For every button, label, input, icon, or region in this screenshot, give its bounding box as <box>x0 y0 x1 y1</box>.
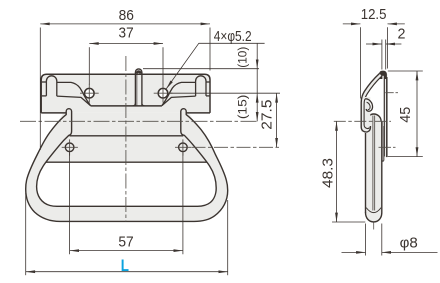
spring leaf S-curve <box>362 73 382 99</box>
bail handle loop <box>26 109 228 222</box>
dimension 37 <box>89 44 163 85</box>
pivot pocket curl <box>361 97 372 132</box>
svg-text:(15): (15) <box>235 95 249 120</box>
dimension (10) <box>143 43 259 93</box>
top rolled cap side (dark) <box>379 71 387 79</box>
dimension 86 <box>40 24 210 150</box>
rivet right <box>175 139 191 155</box>
dimension phi8 <box>342 224 438 256</box>
dimension 27.5 <box>276 93 278 147</box>
handle bar side <box>366 113 382 222</box>
svg-text:48.3: 48.3 <box>320 158 336 188</box>
screw hole left <box>85 88 95 98</box>
left ear stamped detail <box>42 76 91 106</box>
svg-text:φ8: φ8 <box>400 235 418 251</box>
svg-text:45: 45 <box>398 107 414 123</box>
rivet axis centerline right extension <box>192 146 281 148</box>
hole center marks <box>80 84 172 103</box>
vertical centerline front view <box>125 56 127 222</box>
pivot axis centerline front view <box>20 120 259 122</box>
svg-text:4×φ5.2: 4×φ5.2 <box>214 29 252 45</box>
mounting plate body <box>41 74 212 162</box>
svg-text:27.5: 27.5 <box>260 99 276 129</box>
spring tab at plate center <box>133 69 145 106</box>
leader 4xphi5.2 <box>166 43 264 89</box>
screw hole tick side <box>385 92 398 94</box>
svg-text:2: 2 <box>398 27 406 43</box>
plate flat strip side <box>384 74 388 157</box>
pivot centerline side view <box>334 120 391 122</box>
svg-text:L: L <box>121 257 129 275</box>
svg-text:(10): (10) <box>236 47 250 68</box>
dimension 57 <box>70 152 183 254</box>
spring strap side <box>382 122 384 161</box>
riveted band edges <box>45 136 208 162</box>
screw hole right <box>158 88 168 98</box>
svg-text:12.5: 12.5 <box>361 7 387 23</box>
dimension 2 <box>366 40 401 70</box>
back flap behind bail <box>41 113 212 162</box>
dimension 45 <box>388 71 423 157</box>
svg-text:57: 57 <box>118 234 133 250</box>
dimension (15) <box>170 93 281 121</box>
rivet left <box>62 139 78 155</box>
bar bottom center mark <box>373 223 375 230</box>
svg-text:86: 86 <box>119 8 134 24</box>
svg-text:37: 37 <box>119 25 134 41</box>
rivet center tick side <box>379 146 396 148</box>
right ear stamped detail <box>162 76 211 106</box>
dimension 48.3 <box>332 121 365 222</box>
dimension L <box>26 193 228 275</box>
dimension 12.5 <box>343 24 405 99</box>
